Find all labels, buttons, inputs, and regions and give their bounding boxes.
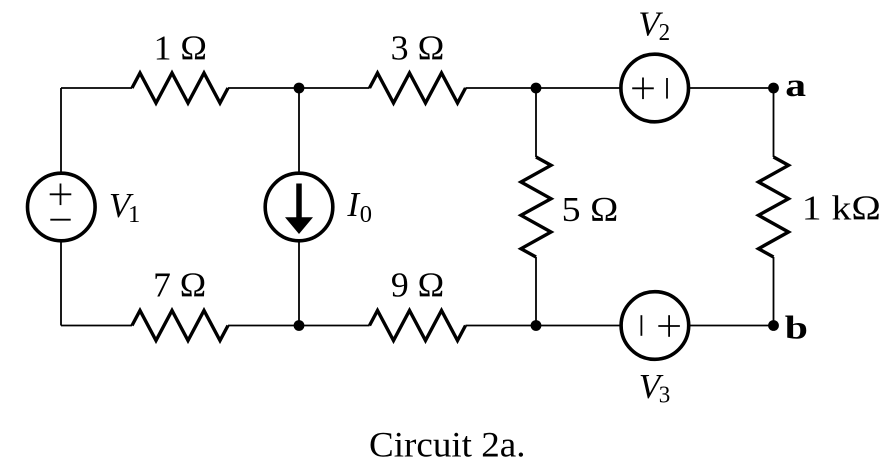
resistor R 5ohm (middle, vertical): [521, 157, 551, 257]
svg-text:2: 2: [659, 19, 671, 46]
wire: node N1 down to I0: [298, 88, 300, 174]
wire: node N3 to R 9ohm: [299, 325, 370, 327]
label 9 ohm: [391, 266, 444, 305]
svg-text:3 Ω: 3 Ω: [391, 28, 445, 67]
svg-text:3: 3: [659, 382, 671, 409]
V1 plus sign: [50, 184, 72, 206]
I0 arrow (downward): [285, 184, 313, 235]
resistor R 3ohm (top-middle): [370, 73, 466, 103]
node a junction dot: [768, 83, 779, 94]
svg-text:Circuit 2a.: Circuit 2a.: [369, 424, 526, 464]
svg-text:1 Ω: 1 Ω: [154, 28, 207, 67]
voltage source V1 circle: [28, 173, 96, 241]
wire: I0 to node N3: [298, 241, 300, 326]
wire: node N2 down to R 5ohm: [535, 88, 537, 157]
wire: R 5ohm to node N4: [535, 257, 537, 326]
label 3 ohm: [391, 28, 445, 67]
svg-text:1 kΩ: 1 kΩ: [802, 188, 881, 227]
wire: node N1 to R 3ohm: [299, 87, 370, 89]
V2 plus sign: [632, 78, 654, 100]
wire: left rail top corner to V1: [60, 88, 62, 174]
resistor R 1ohm (top-left): [132, 73, 228, 103]
label I0: [346, 185, 372, 228]
wire: node a down to R 1k: [773, 88, 775, 157]
label V2: [638, 5, 670, 46]
label 5 ohm: [562, 190, 619, 229]
wire: R 7ohm to node N3: [228, 325, 299, 327]
node N3 junction dot (bottom middle): [294, 320, 305, 331]
label node a: [785, 68, 806, 104]
caption: Circuit 2a.: [369, 424, 526, 464]
resistor R 1kohm (right, vertical): [759, 157, 789, 257]
svg-text:9 Ω: 9 Ω: [391, 266, 444, 305]
wire: node N2 to source V2: [536, 87, 621, 89]
wire: source V2 to node a: [688, 87, 774, 89]
V3 minus-terminal bar: [640, 315, 642, 336]
svg-text:b: b: [785, 311, 808, 347]
wire top-left: left rail corner to R 1ohm: [61, 87, 132, 89]
V2 minus-terminal bar: [666, 78, 668, 99]
label 7 ohm: [153, 266, 206, 305]
label node b: [785, 311, 808, 347]
svg-text:5 Ω: 5 Ω: [562, 190, 619, 229]
node N2 junction dot (top, 5-ohm branch): [531, 83, 542, 94]
label V3: [639, 367, 671, 409]
voltage source V2 circle: [621, 54, 689, 122]
label 1 kohm: [802, 188, 881, 227]
wire: bottom-left corner to R 7ohm: [61, 325, 132, 327]
resistor R 9ohm (bottom-middle): [370, 311, 466, 341]
current source I0 circle: [265, 173, 333, 241]
wire: R 1ohm to node N1: [228, 87, 299, 89]
wire: R 3ohm to node N2: [466, 87, 537, 89]
svg-text:a: a: [785, 68, 806, 104]
wire: R 9ohm to node N4: [466, 325, 537, 327]
voltage source V3 circle: [621, 292, 689, 360]
label V1: [109, 186, 140, 228]
node N4 junction dot (bottom, 5-ohm branch): [531, 320, 542, 331]
node N1 junction dot (top middle): [294, 83, 305, 94]
svg-text:0: 0: [360, 201, 372, 228]
wire: V1 to bottom-left corner: [60, 241, 62, 326]
V1 minus sign: [50, 219, 70, 221]
resistor R 7ohm (bottom-left): [132, 311, 228, 341]
wire: R 1k to node b: [773, 257, 775, 326]
label 1 ohm: [154, 28, 207, 67]
svg-text:7 Ω: 7 Ω: [153, 266, 206, 305]
wire: source V3 to node b: [688, 325, 773, 327]
V3 plus sign: [658, 315, 680, 337]
wire: node N4 to source V3: [536, 325, 622, 327]
node b junction dot: [768, 320, 779, 331]
svg-text:1: 1: [128, 201, 140, 228]
